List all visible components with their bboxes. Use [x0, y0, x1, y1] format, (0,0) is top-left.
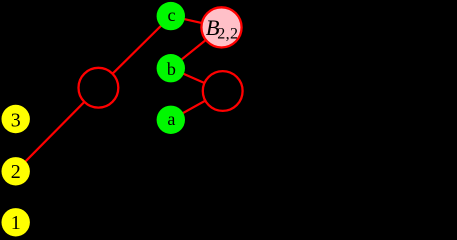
node: right empty red circle [203, 71, 243, 111]
node B2,2 pink circle [201, 7, 241, 47]
node 3 yellow circle [2, 105, 30, 133]
svg-text:2: 2 [11, 161, 21, 183]
node 2 yellow circle [2, 157, 30, 185]
wire: edge node B22 to node b [171, 27, 222, 68]
svg-text:3: 3 [11, 110, 21, 132]
wire: edge node c to node B22 [171, 16, 222, 27]
wire: edge node 2 to left empty node [16, 88, 99, 172]
wire: edge node a to right empty node [171, 91, 223, 120]
svg-text:1: 1 [11, 212, 21, 234]
node b green circle [157, 54, 185, 82]
wire: edge left empty node to node c [98, 16, 170, 88]
node a green circle [157, 106, 185, 134]
wire: edge node b to right empty node [171, 68, 223, 91]
node: left empty red circle [79, 68, 119, 108]
svg-text:c: c [168, 5, 176, 25]
node 1 yellow circle [2, 208, 30, 236]
svg-text:b: b [167, 59, 176, 79]
node c green circle [157, 2, 185, 30]
svg-text:a: a [167, 109, 175, 129]
